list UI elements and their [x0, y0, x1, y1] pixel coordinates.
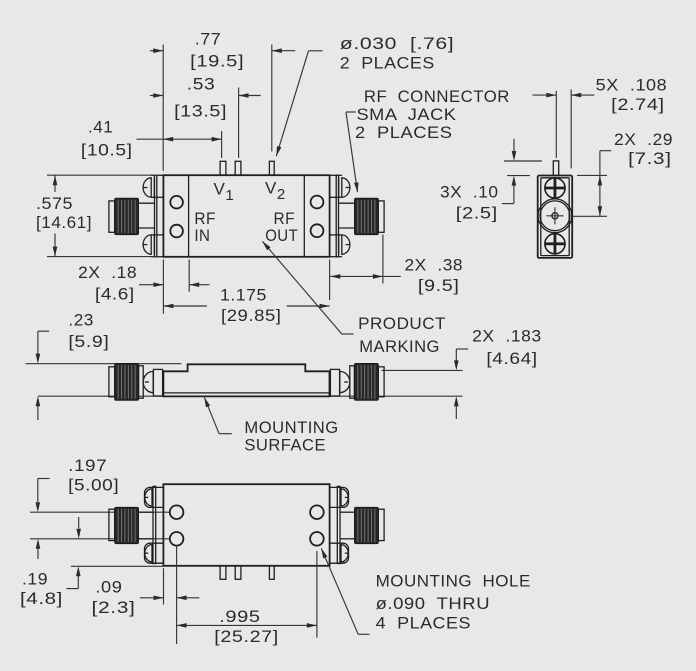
dim .197 [5.00] — [38, 478, 50, 480]
bottom view: hole center line bottom — [30, 538, 170, 540]
bottom view: right SMA connector — [330, 486, 385, 563]
bottom view: flange ear — [145, 487, 164, 507]
bottom view: SMA end cap — [378, 509, 384, 540]
ear edge bottom — [330, 234, 343, 236]
dim .23 [5.9] — [38, 330, 49, 332]
side view: ear screw head — [340, 371, 350, 392]
svg-text:2X .38: 2X .38 — [405, 255, 464, 274]
svg-text:[5.00]: [5.00] — [68, 476, 119, 495]
svg-text:2 PLACES: 2 PLACES — [340, 54, 435, 73]
side view: body profile outline — [163, 364, 329, 396]
svg-text:[19.5]: [19.5] — [190, 51, 244, 70]
side view: right SMA connector — [330, 364, 384, 401]
svg-text:1.175: 1.175 — [220, 286, 267, 305]
bottom view: mounting holes — [170, 505, 184, 519]
end view: bottom mounting screw — [545, 234, 565, 254]
SMA knurled nut — [355, 198, 379, 234]
dim extension line pin2 — [238, 88, 240, 159]
flange ear screw — [342, 178, 350, 197]
bottom view: SMA end cap — [109, 509, 115, 540]
dim .53 [13.5] — [150, 95, 163, 97]
dim extension line pin1 — [221, 131, 223, 158]
end view: top mounting screw — [545, 178, 565, 198]
top view: V2 supply pin (middle) — [235, 161, 241, 175]
side view: mounting surface line — [38, 395, 463, 397]
svg-text:4 PLACES: 4 PLACES — [376, 613, 471, 632]
svg-text:2 PLACES: 2 PLACES — [355, 123, 453, 142]
side view: ear screw head — [143, 371, 153, 392]
side view: top extension line right — [382, 369, 463, 371]
svg-text:[29.85]: [29.85] — [221, 306, 282, 325]
top view: V1 pin — [220, 161, 226, 175]
svg-text:MOUNTING HOLE: MOUNTING HOLE — [376, 571, 531, 590]
bottom view: flange plate — [337, 486, 340, 563]
side view: washer — [139, 366, 144, 398]
bottom view: ear screw — [341, 489, 348, 506]
ear edge top — [330, 196, 343, 198]
svg-text:[13.5]: [13.5] — [174, 102, 227, 121]
top view: inner flange line right — [303, 175, 305, 257]
leader PRODUCT MARKING — [263, 241, 342, 334]
bottom view: flange ear — [145, 543, 164, 563]
dim .41 [10.5] — [137, 138, 222, 140]
top view: right SMA connector — [330, 175, 385, 257]
connector flange plate — [336, 175, 338, 257]
top view: body outline — [163, 175, 329, 257]
side view: SMA knurled nut — [115, 364, 139, 401]
leader RF CONNECTOR — [346, 111, 356, 113]
svg-text:RF CONNECTOR: RF CONNECTOR — [364, 87, 510, 106]
dim .09 [2.3] — [163, 568, 165, 604]
side view: SMA end cap — [378, 367, 384, 397]
dim .77 [19.5] — [150, 50, 163, 52]
svg-text:.575: .575 — [36, 194, 73, 213]
leader MOUNTING SURFACE — [204, 397, 219, 434]
svg-text:.41: .41 — [88, 117, 113, 136]
svg-text:MARKING: MARKING — [359, 337, 440, 356]
dim .19 [4.8] — [37, 549, 39, 560]
svg-text:.197: .197 — [68, 456, 107, 475]
svg-text:[2.5]: [2.5] — [456, 203, 498, 222]
bottom view: pins downward — [220, 566, 226, 580]
dim 2X .183 [4.64] — [456, 348, 468, 350]
svg-text:PRODUCT: PRODUCT — [358, 314, 446, 333]
svg-text:ø.090 THRU: ø.090 THRU — [376, 594, 491, 613]
SMA coupling-nut end cap — [378, 201, 384, 232]
dim 2X .38 [9.5] — [382, 235, 384, 284]
dim .995 [25.27] — [316, 551, 318, 638]
side view: SMA knurled nut — [354, 364, 378, 401]
bottom view: ear screw — [145, 545, 152, 562]
bottom view: ear screw — [341, 545, 348, 562]
svg-text:[7.3]: [7.3] — [628, 149, 672, 168]
bottom view: body outline — [163, 484, 329, 566]
dim .575 [14.61] — [54, 175, 56, 192]
bottom view: SMA barrel — [139, 511, 154, 513]
dim extension line pin3 V2 — [271, 45, 273, 152]
dim 5X .108 [2.74] — [555, 91, 557, 158]
svg-text:[14.61]: [14.61] — [36, 213, 92, 232]
top view: screw holes left — [170, 196, 183, 209]
top view: V2 pin (right) — [269, 161, 274, 175]
SMA barrel — [139, 202, 155, 204]
end view: SMA jack center — [538, 199, 572, 233]
svg-text:.53: .53 — [187, 74, 216, 93]
end view: outer housing — [538, 176, 573, 258]
svg-text:SURFACE: SURFACE — [244, 436, 326, 455]
dim 2X .29 [7.3] — [600, 150, 611, 152]
svg-text:.19: .19 — [22, 570, 48, 589]
svg-text:.995: .995 — [219, 607, 261, 626]
svg-text:[25.27]: [25.27] — [214, 627, 278, 646]
svg-text:2X .18: 2X .18 — [78, 263, 137, 282]
side view: SMA end cap — [109, 367, 115, 397]
svg-text:MOUNTING: MOUNTING — [244, 418, 338, 437]
ear edge top — [151, 196, 164, 198]
side view: left SMA connector — [109, 364, 163, 401]
svg-text:[4.64]: [4.64] — [486, 349, 537, 368]
top view: screw holes right — [311, 196, 324, 209]
svg-text:[5.9]: [5.9] — [68, 332, 109, 351]
svg-text:[2.74]: [2.74] — [611, 95, 665, 114]
dim .575 [14.61] extension lines — [47, 174, 158, 176]
leader diameter .030 pins — [276, 51, 308, 156]
bottom view: ear screw — [145, 489, 152, 506]
end view: inner face — [541, 178, 569, 256]
leader MOUNTING HOLE — [321, 548, 358, 634]
svg-text:.77: .77 — [195, 30, 222, 49]
bottom view: SMA barrel — [340, 511, 355, 513]
bottom view: SMA knurled nut — [355, 507, 379, 543]
svg-text:.09: .09 — [95, 578, 122, 597]
svg-text:5X .108: 5X .108 — [596, 75, 668, 94]
svg-text:ø.030 [.76]: ø.030 [.76] — [340, 34, 455, 53]
side view: flange plate — [153, 369, 162, 396]
bottom view: hole center line top — [30, 511, 170, 513]
side view: washer — [350, 366, 355, 398]
dim 2X .18 [4.6] — [162, 260, 164, 314]
svg-text:.23: .23 — [68, 310, 94, 329]
end view: pin end-on — [553, 161, 558, 176]
side view: lid-top extension line left — [26, 363, 182, 365]
flange ear screw — [143, 235, 151, 254]
dim extension line body-left above — [162, 45, 164, 172]
connector flange plate — [155, 175, 157, 257]
dim 1.175 [29.85] — [329, 260, 331, 301]
svg-text:[9.5]: [9.5] — [418, 276, 460, 295]
top view: inner flange line left — [188, 175, 190, 257]
svg-text:SMA JACK: SMA JACK — [357, 105, 457, 124]
ear edge bottom — [151, 234, 164, 236]
svg-text:[4.8]: [4.8] — [20, 589, 63, 608]
bottom view: flange ear — [330, 543, 349, 563]
svg-text:2X .183: 2X .183 — [472, 326, 542, 345]
side view: base lip line — [163, 392, 329, 394]
svg-text:IN: IN — [194, 226, 210, 245]
svg-text:[4.6]: [4.6] — [95, 285, 135, 304]
SMA knurled nut — [115, 198, 139, 234]
SMA coupling-nut end cap — [109, 201, 115, 232]
svg-text:OUT: OUT — [265, 226, 298, 245]
top view: left SMA connector — [109, 175, 163, 257]
svg-text:3X .10: 3X .10 — [440, 183, 499, 202]
svg-text:2X .29: 2X .29 — [614, 130, 673, 149]
svg-text:[2.3]: [2.3] — [92, 598, 136, 617]
dim 3X .10 [2.5] — [504, 160, 542, 162]
svg-text:[10.5]: [10.5] — [81, 140, 133, 159]
bottom view: flange plate — [153, 486, 156, 563]
bottom view: left SMA connector — [109, 486, 164, 563]
flange ear screw — [143, 178, 151, 197]
bottom view: flange ear — [330, 487, 349, 507]
bottom body edge extension — [71, 565, 163, 567]
bottom view: SMA knurled nut — [115, 507, 139, 543]
SMA barrel — [338, 202, 354, 204]
flange ear screw — [342, 235, 350, 254]
side view: flange plate — [330, 369, 339, 396]
